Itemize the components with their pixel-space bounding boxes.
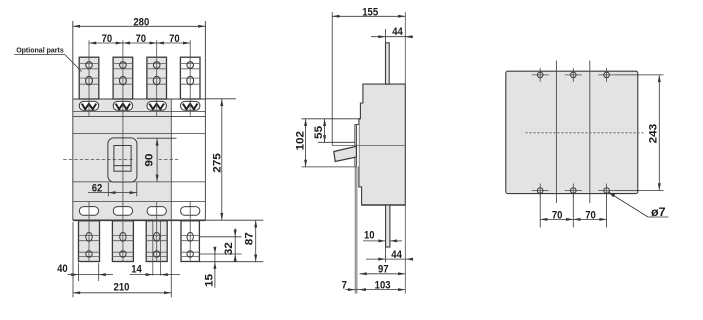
svg-text:243: 243 [647,124,659,144]
svg-text:275: 275 [211,153,223,173]
svg-text:14: 14 [131,264,142,276]
svg-text:62: 62 [92,182,103,194]
svg-text:44: 44 [391,249,402,261]
svg-text:210: 210 [114,282,130,294]
svg-text:70: 70 [136,33,147,45]
svg-text:280: 280 [133,16,149,28]
svg-text:ø7: ø7 [651,207,666,219]
svg-text:70: 70 [585,209,596,221]
svg-text:97: 97 [378,264,389,276]
svg-text:90: 90 [144,153,156,166]
svg-text:70: 70 [102,33,113,45]
svg-text:7: 7 [342,279,347,291]
svg-text:155: 155 [362,6,378,18]
svg-text:87: 87 [244,232,256,245]
svg-text:40: 40 [57,263,68,275]
svg-text:10: 10 [364,229,375,241]
svg-text:103: 103 [375,279,391,291]
svg-text:44: 44 [392,26,403,38]
svg-text:15: 15 [203,274,215,287]
svg-text:Optional parts: Optional parts [16,46,64,55]
svg-text:32: 32 [223,242,235,255]
svg-text:55: 55 [313,126,325,139]
svg-text:70: 70 [169,33,180,45]
svg-text:70: 70 [552,209,563,221]
svg-text:102: 102 [294,131,306,151]
